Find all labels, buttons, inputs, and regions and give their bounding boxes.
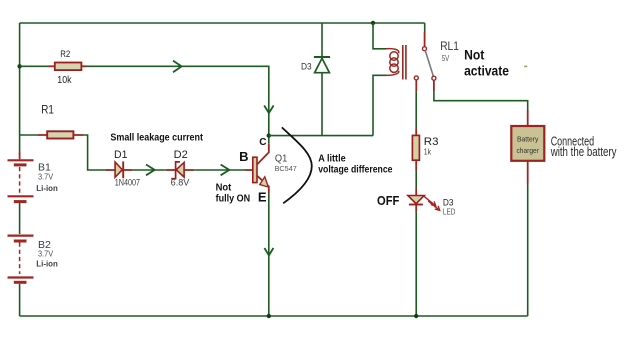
relay contact left	[414, 76, 418, 80]
svg-text:Battery: Battery	[517, 135, 539, 144]
wire R3 to LED	[415, 160, 417, 170]
svg-text:Not: Not	[464, 47, 484, 63]
wire right contact to charger	[434, 91, 528, 110]
svg-text:Li-ion: Li-ion	[36, 259, 58, 268]
svg-text:RL1: RL1	[440, 41, 459, 53]
svg-text:OFF: OFF	[377, 193, 399, 208]
relay switch blade	[425, 50, 433, 76]
diode D3 green	[301, 23, 330, 136]
arrow on R2 wire	[173, 61, 182, 73]
svg-text:with the battery: with the battery	[550, 144, 617, 159]
zener diode D2	[166, 149, 194, 188]
relay RL1 coil	[386, 49, 399, 76]
wire right contact stub	[433, 80, 435, 91]
small dash artifact	[524, 66, 527, 68]
resistor R3	[412, 135, 438, 160]
svg-text:10k: 10k	[57, 74, 72, 86]
svg-text:Q1: Q1	[275, 153, 288, 165]
wire relay coil bottom return	[373, 75, 386, 135]
wire bottom horizontal	[20, 315, 528, 317]
svg-text:Li-ion: Li-ion	[36, 184, 58, 193]
diode D1	[106, 149, 140, 188]
svg-text:voltage difference: voltage difference	[318, 163, 392, 175]
wire R1 to D1 row	[83, 135, 108, 170]
wire left contact stub	[415, 80, 417, 91]
annotation A little voltage difference	[318, 153, 392, 176]
svg-text:E: E	[258, 189, 267, 204]
arrow D2-base	[221, 165, 230, 176]
wire collector node horizontal	[269, 135, 373, 137]
wire charger top red	[527, 110, 529, 126]
svg-text:R2: R2	[60, 49, 70, 60]
svg-text:activate: activate	[464, 62, 509, 78]
LED arrows	[424, 196, 440, 210]
wire R2 output to collector node	[87, 66, 269, 133]
relay core lines	[403, 45, 406, 80]
junction dot LED bottom	[414, 314, 418, 318]
relay switch pivot	[423, 47, 427, 51]
svg-text:BC547: BC547	[275, 164, 297, 173]
LED D3	[408, 196, 456, 217]
annotation bracket curve	[282, 127, 312, 203]
annotation Not fully ON	[216, 181, 251, 204]
wire top horizontal	[20, 22, 425, 24]
wire to switch pivot	[424, 23, 426, 32]
resistor R1	[20, 103, 83, 139]
svg-text:LED: LED	[443, 208, 456, 217]
junction dot R2 tap	[17, 64, 21, 68]
transistor Q1	[245, 136, 297, 194]
arrow down on emitter wire	[264, 248, 273, 255]
svg-text:R1: R1	[41, 103, 54, 117]
battery B1	[8, 152, 58, 202]
arrow down on vertical	[264, 106, 273, 114]
arrow D1-D2	[146, 165, 155, 176]
wire left vertical	[19, 23, 21, 152]
wire left contact to R3	[415, 91, 417, 128]
wire D1 to D2	[132, 169, 166, 171]
relay contact right	[432, 76, 436, 80]
junction dot emitter bottom	[267, 314, 271, 318]
annotation Not activate	[464, 47, 509, 79]
svg-text:fully ON: fully ON	[216, 192, 251, 204]
svg-text:Small leakage current: Small leakage current	[110, 132, 203, 143]
wire LED to bottom	[415, 212, 417, 316]
svg-text:6.8V: 6.8V	[171, 178, 190, 188]
svg-text:1N4007: 1N4007	[115, 178, 140, 188]
svg-text:D1: D1	[114, 149, 127, 161]
svg-text:3.7V: 3.7V	[38, 173, 54, 182]
battery B2	[8, 236, 58, 283]
resistor R2	[20, 49, 87, 86]
svg-text:charger: charger	[516, 146, 539, 155]
svg-text:3.7V: 3.7V	[38, 250, 54, 259]
wire between batteries	[19, 203, 21, 235]
junction dot collector node	[267, 133, 271, 137]
battery charger box	[511, 126, 544, 161]
svg-text:5V: 5V	[442, 54, 450, 63]
wire relay coil top feed	[373, 23, 386, 49]
svg-text:1k: 1k	[424, 146, 432, 156]
annotation Connected with the battery	[550, 133, 617, 159]
svg-text:D2: D2	[174, 149, 188, 161]
wire emitter down	[268, 193, 270, 316]
wire battery to bottom	[19, 284, 21, 316]
svg-text:C: C	[259, 137, 266, 148]
svg-text:D3: D3	[301, 61, 312, 71]
wire D2 to base	[194, 169, 245, 171]
svg-text:B: B	[239, 149, 248, 164]
junction dot relay top	[371, 21, 375, 25]
wire charger bottom	[527, 161, 529, 184]
